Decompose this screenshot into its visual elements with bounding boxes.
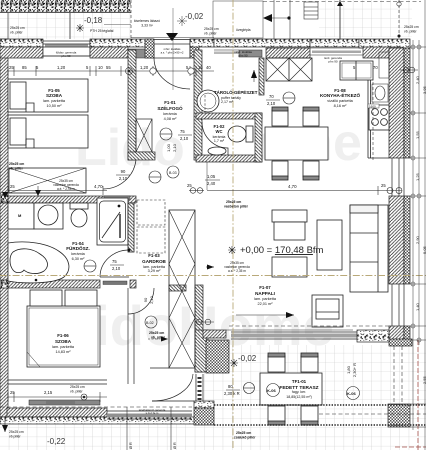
svg-text:25x25 cm: 25x25 cm <box>236 431 251 435</box>
text OR right <box>173 442 177 449</box>
bed1 upper pillow <box>10 82 26 109</box>
svg-text:2,10: 2,10 <box>149 295 154 304</box>
svg-text:Ø R: Ø R <box>173 442 177 449</box>
svg-text:a.s. * pfm 2×90 ×2: a.s. * pfm 2×90 ×2 <box>161 51 184 55</box>
stove <box>369 105 389 130</box>
sofa right section <box>350 205 388 292</box>
svg-text:a.é. * 2,98 m: a.é. * 2,98 m <box>57 187 75 191</box>
bedroom2 east wall <box>128 314 134 384</box>
downspout vline x340 <box>337 0 343 39</box>
svg-text:SZOBA: SZOBA <box>55 339 72 344</box>
cross symbol +000 <box>228 246 236 254</box>
kitchen top window band <box>310 48 363 55</box>
entrance jamb checker right <box>190 39 199 58</box>
svg-text:25x25 cm: 25x25 cm <box>9 430 24 434</box>
bedroom2 door arc <box>128 288 154 314</box>
level triangle top <box>166 33 178 41</box>
door size 1,00/2,10 vertical <box>166 143 177 152</box>
svg-text:-0,02: -0,02 <box>238 354 257 363</box>
text 25x25 top left <box>10 26 25 35</box>
svg-text:kiselemes lábazó: kiselemes lábazó <box>134 19 160 23</box>
dim line mid y190 right <box>207 162 402 195</box>
svg-text:vb. pillér: vb. pillér <box>204 32 217 36</box>
dim numbers top <box>9 65 211 70</box>
paving grid top right <box>319 0 412 37</box>
gardrob dashed boxes <box>137 200 165 253</box>
svg-text:25x25 cm: 25x25 cm <box>226 200 241 204</box>
svg-text:TÁROLÓ-GÉPÉSZET: TÁROLÓ-GÉPÉSZET <box>214 90 258 95</box>
svg-text:-0,02: -0,02 <box>185 12 204 21</box>
svg-text:TF1-01: TF1-01 <box>292 379 307 384</box>
label F1-06 SZOBA <box>52 333 75 354</box>
text kem gerenda szelfogo <box>234 50 253 58</box>
kitchen sink unit <box>372 84 388 102</box>
kitchen wall cabinet small <box>379 52 389 78</box>
svg-text:F1-03: F1-03 <box>148 253 160 258</box>
bathtub dot <box>35 279 38 282</box>
hatch corner NE kitchen <box>363 47 401 58</box>
svg-text:+0,00 = 170,48 Bfm: +0,00 = 170,48 Bfm <box>240 245 324 256</box>
svg-text:2,10: 2,10 <box>172 143 177 152</box>
top wall stipple layer seg1 <box>0 39 43 47</box>
svg-text:vb. pillér: vb. pillér <box>151 336 166 340</box>
bed1 lower pillow <box>10 118 26 145</box>
dim triangle left <box>2 192 8 199</box>
right exterior wall living part insulation <box>404 196 410 284</box>
terrace chair bottom-left <box>268 406 285 425</box>
right exterior wall SE stub <box>389 326 404 340</box>
door size 90/210 bedroom2 vertical <box>143 295 154 304</box>
svg-text:70: 70 <box>269 94 274 99</box>
cross symbol -0,02 <box>177 16 187 26</box>
WC right wall <box>255 113 262 162</box>
svg-text:1,7 m²: 1,7 m² <box>214 139 225 143</box>
label F1-03 GARDROB <box>142 253 166 273</box>
gutter ladder <box>304 2 318 19</box>
text 1600 radiator <box>368 104 379 109</box>
dashed line top right pillar <box>398 0 400 38</box>
svg-text:2,17 m²: 2,17 m² <box>221 100 234 104</box>
bathroom north wall pillar <box>0 195 8 203</box>
boiler circle <box>197 90 219 112</box>
dim line top y71 <box>8 66 214 76</box>
door size 80/2,30 terrace <box>224 384 240 396</box>
terrace chair bottom-right <box>301 406 318 425</box>
corridor up arrow <box>251 70 257 82</box>
dashed vline left of canopy <box>130 0 132 38</box>
entrance ext line <box>172 8 174 90</box>
svg-text:6,30 m²: 6,30 m² <box>72 257 86 261</box>
szelfogo-hall opening arc <box>103 160 136 189</box>
entrance door arc <box>154 58 190 89</box>
svg-text:90: 90 <box>143 297 148 302</box>
svg-text:4,70: 4,70 <box>288 184 297 189</box>
label F1-08 KONYHA <box>320 88 360 108</box>
sofa left seat2 <box>272 257 307 277</box>
living room south sliding door <box>226 330 357 339</box>
text 25x25 vb piller midleft <box>9 162 24 171</box>
corridor circles pair <box>195 319 214 325</box>
svg-text:5,05: 5,05 <box>422 245 426 254</box>
svg-text:vb. pillér: vb. pillér <box>70 390 83 394</box>
svg-text:4,08 m²: 4,08 m² <box>164 117 178 121</box>
wardrobe top cap <box>169 285 186 291</box>
door id circle K-06 terrace <box>267 384 280 397</box>
door size 1,80/2,30 vertical <box>346 363 357 377</box>
svg-text:vasbeton pillér: vasbeton pillér <box>224 205 249 209</box>
right dim rotated numbers <box>415 75 426 384</box>
svg-text:90: 90 <box>121 169 126 174</box>
svg-text:2,30 k R: 2,30 k R <box>224 391 240 396</box>
terrace table <box>260 373 322 405</box>
svg-text:3,95: 3,95 <box>422 85 426 94</box>
hatch block below top wall kitchen <box>266 48 310 58</box>
chair bottom-left <box>272 161 288 180</box>
svg-text:25x25 cm: 25x25 cm <box>9 162 24 166</box>
terrace dashed line 3 <box>319 413 426 415</box>
WC top wall <box>196 113 262 119</box>
svg-text:K-06: K-06 <box>267 388 276 393</box>
text 25x25 zsaluko piller <box>234 431 256 440</box>
terrace overhang dashed y326 <box>229 325 389 327</box>
svg-text:1,20: 1,20 <box>57 65 66 70</box>
svg-text:vb. pillér: vb. pillér <box>404 30 417 34</box>
label F1-01 SZELFOGO <box>157 100 183 121</box>
top dense stipple band <box>0 0 131 12</box>
top exterior wall storage segment stipple <box>214 39 310 47</box>
svg-text:Ø R: Ø R <box>129 442 133 449</box>
window W bedroom1 top <box>43 41 90 56</box>
dim vline bottom left pillar <box>2 417 8 432</box>
svg-text:F1-06: F1-06 <box>57 333 69 338</box>
terrace SE pillar <box>388 404 410 427</box>
right wall window1 <box>392 158 404 196</box>
text 25x25 gardrob pillar <box>149 331 166 340</box>
canopy arrow <box>263 14 291 22</box>
svg-text:25x25 cm: 25x25 cm <box>10 26 25 30</box>
svg-text:vb. pillér: vb. pillér <box>10 31 23 35</box>
dim 25 2,15 bottom <box>10 390 53 395</box>
door id circle B-02 <box>145 316 157 328</box>
kitchen dashed centerline <box>372 82 374 160</box>
canopy post line2 <box>289 0 291 39</box>
kitchen upper cabinet <box>340 61 373 80</box>
storage dashed vline <box>204 95 206 113</box>
dim line bottom y397 <box>8 392 107 402</box>
entrance lintel text <box>161 47 184 55</box>
bedroom2 bottom window gray bar <box>29 400 100 405</box>
door panel dashes <box>198 377 202 400</box>
bed2 inner line <box>29 308 98 365</box>
svg-text:2,40: 2,40 <box>207 181 216 186</box>
svg-text:WC: WC <box>216 129 223 134</box>
door id circle storage <box>283 92 295 104</box>
door id circle B-03 <box>167 166 179 178</box>
svg-text:pfm 90: pfm 90 <box>328 60 338 64</box>
svg-text:80: 80 <box>228 384 233 389</box>
text vasbeton gerenda nappali <box>224 261 250 273</box>
bath counter <box>34 203 63 229</box>
text 25x25 canopy <box>204 27 219 36</box>
left exterior wall <box>0 39 8 417</box>
bed2 pillow right <box>65 290 97 306</box>
corridor bottom checker pillar <box>194 408 214 425</box>
text 25x25 nappali pillar <box>224 200 249 209</box>
text kiselemes <box>134 19 160 28</box>
entrance jamb checker left <box>145 39 154 58</box>
bed1 upper fold <box>26 103 34 112</box>
text vasbeton gerenda bedroom1 <box>53 179 79 191</box>
tall wardrobe X-box corridor <box>169 210 195 368</box>
text terelhatarolo <box>139 408 166 415</box>
bottom dashed overhang line <box>0 406 192 408</box>
door size 75/210 bath <box>110 259 124 271</box>
svg-text:2,10: 2,10 <box>180 136 189 141</box>
bathroom door arc <box>100 250 129 277</box>
svg-text:14,83 m²: 14,83 m² <box>56 350 72 354</box>
svg-text:2,30+ R: 2,30+ R <box>352 363 357 377</box>
wall bedroom1 east <box>128 50 136 160</box>
WC toilet tank <box>246 126 253 142</box>
right exterior wall kitchen part brick <box>389 48 404 158</box>
bed1 lower mattress <box>8 115 88 148</box>
kitchen counter edge <box>368 80 389 158</box>
paving grid top left <box>0 12 131 39</box>
ext vline x8 <box>7 13 9 39</box>
svg-text:FÜRDŐSZ.: FÜRDŐSZ. <box>66 245 89 251</box>
corner bathtub <box>8 242 69 283</box>
storage window opening <box>214 50 239 54</box>
svg-text:zsalukő pillér: zsalukő pillér <box>234 436 256 440</box>
downspout line left <box>127 407 171 450</box>
text foldsz gerenda <box>56 51 77 59</box>
svg-text:8,16 m²: 8,16 m² <box>334 104 348 108</box>
top wall brick layer seg2 <box>90 47 128 58</box>
door id circle bath <box>84 260 96 272</box>
text 25x25 bottom left <box>9 430 24 439</box>
svg-text:lam. parketta: lam. parketta <box>52 345 75 349</box>
WC bottom wall <box>196 155 262 162</box>
chair top-right <box>303 107 319 126</box>
leader line -018 <box>104 24 131 26</box>
door size 75/210 A <box>178 129 192 141</box>
label TF1-01 FEDETT TERASZ <box>279 379 318 399</box>
terrace NE small pillar <box>389 339 412 346</box>
svg-text:2,40: 2,40 <box>415 75 420 84</box>
terrace vert dashed a <box>393 346 395 404</box>
terrace dotted line 2 <box>214 424 426 426</box>
sofa left back <box>272 210 307 222</box>
roof overhang dashed top <box>263 1 421 3</box>
svg-text:2,55: 2,55 <box>422 375 426 384</box>
pillar dot <box>398 35 401 38</box>
svg-text:1600: 1600 <box>369 105 376 109</box>
svg-text:kerámia: kerámia <box>163 112 177 116</box>
svg-text:F1-01: F1-01 <box>164 100 176 105</box>
svg-text:GARDROB: GARDROB <box>142 259 166 264</box>
svg-text:70: 70 <box>373 65 378 70</box>
entrance door opening lintel <box>153 39 190 58</box>
bathroom south wall <box>8 280 100 288</box>
svg-text:1,55: 1,55 <box>415 130 420 139</box>
label F1-04 FURDOSZ <box>66 241 89 261</box>
FURNITURE-LAYER <box>0 0 421 41</box>
svg-text:75: 75 <box>112 259 117 264</box>
svg-text:1,20: 1,20 <box>140 65 149 70</box>
terrace chair top-right <box>301 353 318 372</box>
svg-text:-0,18: -0,18 <box>84 16 103 25</box>
label F1-02 WC <box>213 124 226 143</box>
svg-text:vb pillér: vb pillér <box>9 435 22 439</box>
right wall window2 <box>392 284 404 326</box>
svg-text:55: 55 <box>106 65 111 70</box>
svg-text:F1-07: F1-07 <box>259 285 271 290</box>
armchair living <box>312 295 343 327</box>
kitchen wall circles pair <box>400 67 418 73</box>
terrace chair top-left <box>268 353 285 372</box>
corridor bottom stipple <box>194 401 214 408</box>
door size 1,05/2,40 <box>205 174 220 186</box>
svg-text:85: 85 <box>22 65 27 70</box>
top wall brick layer seg1 <box>0 47 43 58</box>
SE insulation stub <box>404 326 410 340</box>
living room SW checker pillar <box>206 340 229 373</box>
svg-text:25: 25 <box>187 183 192 188</box>
bottom exterior wall stipple <box>0 417 195 424</box>
bathroom north wall <box>8 196 136 203</box>
svg-text:vízálló parketta: vízálló parketta <box>327 99 353 103</box>
svg-text:NAPPALI: NAPPALI <box>255 291 275 296</box>
door id circle terrace small <box>244 383 255 394</box>
canopy post line1 <box>273 0 275 39</box>
svg-text:10: 10 <box>98 65 103 70</box>
svg-text:KONYHA-ÉTKEZŐ: KONYHA-ÉTKEZŐ <box>320 91 360 98</box>
label TAROLO-GEPESZET <box>214 90 258 104</box>
living room south wall stub <box>195 330 208 372</box>
szelfogo south wall piece <box>128 152 155 160</box>
door size 90/210 szelfogo <box>116 169 130 181</box>
svg-text:kerámia: kerámia <box>71 252 85 256</box>
bed2 body <box>27 306 100 367</box>
label F1-07 NAPPALI <box>254 285 277 306</box>
svg-text:15: 15 <box>198 65 203 70</box>
svg-text:B-02: B-02 <box>146 321 154 325</box>
svg-text:2,10: 2,10 <box>267 101 276 106</box>
svg-text:2,90: 2,90 <box>415 235 420 244</box>
kitchen sink basin <box>375 86 385 100</box>
text 5 70 cabinet <box>353 65 378 70</box>
section line vertical <box>232 0 234 450</box>
wall szelfogo east <box>194 50 202 160</box>
bath round sink <box>38 205 58 225</box>
paving grid terrace bottom <box>195 345 426 450</box>
svg-text:SZOBA: SZOBA <box>46 93 63 98</box>
gray lintel shower top <box>104 196 130 200</box>
right exterior wall kitchen part insulation <box>404 48 410 158</box>
svg-text:25x25 cm: 25x25 cm <box>204 27 219 31</box>
top wall right of entrance stipple <box>190 39 214 47</box>
living room south window right block <box>357 330 389 342</box>
level line top <box>131 37 214 39</box>
xbox bottom line <box>150 367 169 369</box>
svg-text:25x25 cm: 25x25 cm <box>404 25 419 29</box>
bed1 upper mattress <box>8 79 88 112</box>
right dim circles <box>411 45 421 342</box>
bathroom south wall pillar <box>0 280 8 288</box>
kitchen tall cabinet X-box <box>266 58 312 81</box>
top wall NE corner stipple <box>359 39 410 48</box>
svg-text:1,05: 1,05 <box>207 174 216 179</box>
svg-text:1,80: 1,80 <box>346 365 351 374</box>
bath door threshold <box>103 281 127 285</box>
section line horizontal <box>0 275 426 277</box>
WC door arc <box>202 122 228 155</box>
top band bottom border <box>0 11 131 13</box>
washing machine M <box>8 203 34 229</box>
svg-text:PTH 25 téglafal: PTH 25 téglafal <box>90 29 114 33</box>
svg-text:3,29 m²: 3,29 m² <box>148 269 162 273</box>
gray door bar bedroom2 bottom <box>46 401 75 404</box>
cross marker left <box>76 24 84 32</box>
bath toilet bowl <box>71 209 87 227</box>
WC small sink <box>208 147 226 155</box>
svg-text:25: 25 <box>9 65 14 70</box>
door size 70/210 wc <box>266 94 280 106</box>
svg-text:25: 25 <box>10 390 15 395</box>
top wall stipple layer seg2 <box>90 39 153 47</box>
svg-text:25: 25 <box>10 184 15 189</box>
terrace vert dashed b <box>401 346 403 404</box>
svg-text:K-06: K-06 <box>347 391 356 396</box>
chair bottom-right <box>303 161 319 180</box>
bed1 lower fold <box>26 139 34 148</box>
sofa left seat <box>274 222 305 240</box>
gardrob pillar arrow <box>148 337 168 342</box>
bed2 fold corner <box>27 352 40 367</box>
coffee table <box>317 220 342 270</box>
text 25x25 top right <box>404 25 419 34</box>
svg-text:1,00: 1,00 <box>166 143 171 152</box>
text OR left <box>129 442 133 449</box>
svg-text:3,33 m²: 3,33 m² <box>141 24 153 28</box>
svg-text:10,50 m²: 10,50 m² <box>47 104 63 108</box>
svg-text:75: 75 <box>180 129 185 134</box>
gray lintel storage <box>239 50 262 57</box>
svg-text:vb. pillér: vb. pillér <box>9 167 24 171</box>
svg-text:fagy. ker.: fagy. ker. <box>292 390 306 394</box>
svg-text:-0,22: -0,22 <box>47 437 66 446</box>
svg-text:1,40: 1,40 <box>415 302 420 311</box>
ext vline x70 <box>69 13 71 39</box>
red dashed line right bottom <box>417 340 419 450</box>
canopy outline top <box>213 1 263 38</box>
bottom exterior wall hatch <box>7 408 107 417</box>
pillar circle top <box>397 2 401 6</box>
bathtub inner heart <box>10 249 47 274</box>
svg-text:SZÉLFOGÓ: SZÉLFOGÓ <box>157 104 183 111</box>
paving grid bottom left strip <box>0 424 195 450</box>
dim line mid y190 left <box>8 186 107 196</box>
svg-text:2,15: 2,15 <box>44 390 53 395</box>
svg-text:s.zs.f.fe.m: s.zs.f.fe.m <box>146 411 159 415</box>
svg-text:lam. parketta: lam. parketta <box>254 297 277 301</box>
shower east wall <box>128 203 134 252</box>
terrace door leaf <box>152 400 194 402</box>
svg-text:a.s. * 2,35 m: a.s. * 2,35 m <box>228 269 246 273</box>
door id circle A <box>160 128 172 140</box>
svg-text:1,25: 1,25 <box>415 172 420 181</box>
bedroom2 south wall lines <box>8 380 107 384</box>
